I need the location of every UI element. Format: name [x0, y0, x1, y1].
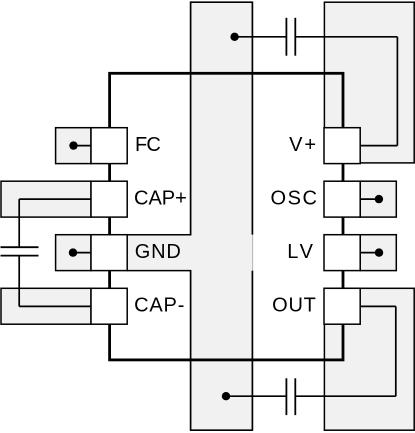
terminal box OSC stub [360, 181, 396, 217]
net region CAP- (left) [1, 288, 91, 324]
net region GND strip [127, 235, 252, 271]
pin box OSC [324, 181, 360, 217]
terminal dot LV [375, 248, 383, 256]
svg-text:LV: LV [287, 241, 313, 263]
terminal dot OSC [375, 195, 383, 203]
wire bottom net: junction to capacitor to OUT [226, 306, 396, 396]
terminal dot GND [69, 248, 77, 256]
svg-text:FC: FC [135, 134, 161, 156]
pin box LV [324, 235, 360, 271]
wire top net: junction to capacitor to V+ [235, 37, 398, 146]
pin box CAP+ [91, 181, 127, 217]
svg-text:GND: GND [135, 241, 181, 263]
junction dot bottom [222, 392, 230, 400]
net region top-right (V+ supply) [324, 2, 414, 163]
capacitor C2 (bottom) [286, 378, 295, 415]
pin box FC [91, 128, 127, 164]
wire capacitor C3 to CAP- [19, 256, 91, 306]
wire CAP+ to capacitor C3 [19, 199, 91, 246]
svg-text:CAP+: CAP+ [134, 187, 187, 209]
wire FC stub [74, 145, 92, 147]
pin box V+ [324, 128, 360, 164]
terminal box LV stub [360, 235, 396, 271]
terminal box GND stub [56, 235, 91, 271]
net region bottom-right (OUT) [324, 288, 414, 430]
IC body U1 outline [110, 73, 343, 360]
terminal dot FC [69, 141, 77, 149]
pin box GND [91, 235, 127, 271]
terminal box FC stub [56, 128, 91, 164]
svg-text:CAP-: CAP- [134, 295, 184, 317]
wire LV stub [360, 252, 379, 254]
svg-text:OUT: OUT [272, 295, 316, 317]
svg-text:OSC: OSC [271, 187, 317, 209]
net region CAP+ (left) [1, 181, 91, 217]
pin box CAP- [91, 288, 127, 324]
net region V+ bus (central vertical band) [190, 2, 253, 431]
wire OSC stub [360, 198, 379, 200]
wire GND stub [73, 252, 91, 254]
junction dot top [230, 33, 238, 41]
capacitor C3 (left) [1, 247, 39, 255]
capacitor C1 (top) [286, 18, 295, 56]
pin box OUT [324, 288, 360, 324]
